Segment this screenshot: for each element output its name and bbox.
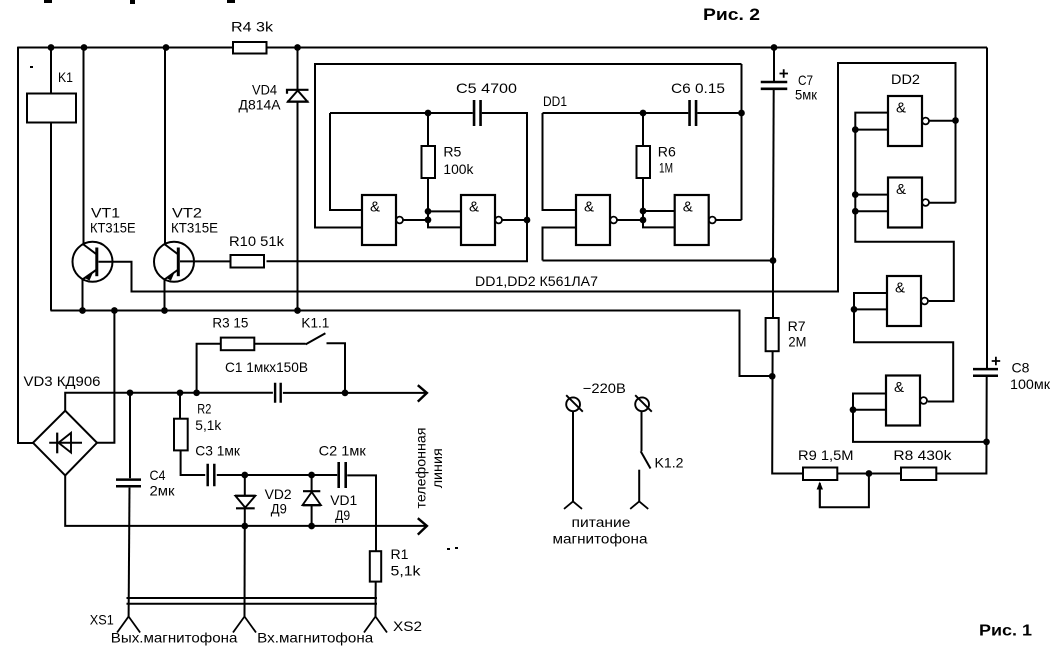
wire DD1.1 upper input loop bbox=[330, 113, 362, 210]
node minus line/VD2 bbox=[241, 523, 248, 530]
NAND gate DD2.2 bbox=[888, 178, 922, 228]
wire osc2 bottom rail to R7 node bbox=[543, 260, 774, 262]
node lower bus/VD4 bbox=[294, 307, 301, 314]
connector fork XS1 bbox=[117, 617, 140, 633]
svg-text:R3 15: R3 15 bbox=[212, 315, 248, 331]
svg-text:2M: 2M bbox=[788, 334, 806, 350]
wire R5 bottom to node bbox=[427, 178, 429, 220]
wire shielded pair line 2 bbox=[127, 603, 378, 605]
wire VD2 top bbox=[244, 475, 246, 496]
node lower bus/bridge bbox=[111, 307, 118, 314]
wire VT2 collector bbox=[164, 48, 166, 245]
svg-text:R6: R6 bbox=[658, 144, 676, 160]
zener diode VD4 Д814А bbox=[287, 90, 309, 94]
polar capacitor C7 bbox=[761, 82, 788, 89]
wire osc1 output down to R10 line bbox=[267, 220, 528, 261]
wire DD1.3 upper input loop bbox=[543, 113, 577, 210]
resistor R6 bbox=[637, 146, 651, 178]
svg-text:Д814А: Д814А bbox=[239, 97, 282, 113]
capacitor C5 bbox=[474, 100, 481, 126]
wire DD2.2 lower input bbox=[855, 210, 888, 212]
node bus/VT2 collector bbox=[163, 44, 170, 51]
svg-text:5мк: 5мк bbox=[795, 87, 818, 103]
wire DD1 osc2 top line right of C6 bbox=[697, 112, 741, 114]
connector fork Вх bbox=[233, 617, 256, 633]
wire R9 wiper loop bbox=[820, 476, 869, 507]
wire R6 top bbox=[642, 113, 644, 146]
svg-text:R4 3k: R4 3k bbox=[231, 19, 274, 35]
svg-text:R10 51k: R10 51k bbox=[229, 233, 285, 249]
diode VD1 Д9 (pointing up) bbox=[303, 490, 320, 492]
node bus/K1 bbox=[48, 44, 55, 51]
node R6/DD1.4 input bbox=[640, 208, 647, 215]
svg-text:−220В: −220В bbox=[583, 380, 626, 396]
wire DD2.4 lower input bbox=[853, 409, 886, 411]
svg-text:КТ315Е: КТ315Е bbox=[171, 220, 218, 236]
NAND gate DD1.2 bbox=[461, 195, 495, 245]
svg-text:&: & bbox=[370, 199, 380, 216]
svg-text:C3 1мк: C3 1мк bbox=[195, 443, 240, 459]
wire VT1 collector bbox=[83, 48, 85, 245]
mains plug terminal 2 bbox=[635, 397, 649, 411]
svg-text:Рис. 2: Рис. 2 bbox=[703, 5, 760, 24]
NAND gate DD2.4 bbox=[886, 376, 920, 426]
wire C1 right to upper arrow bbox=[283, 392, 426, 394]
wire VT1 base to DD2 outputs (long net) bbox=[99, 63, 956, 292]
svg-text:R9 1,5M: R9 1,5M bbox=[798, 447, 854, 463]
resistor R4 bbox=[233, 42, 267, 54]
node DD2.1 inputs bbox=[852, 126, 859, 133]
diode VD2 Д9 (pointing down) bbox=[235, 495, 256, 497]
wire DD2.2 upper input bbox=[855, 194, 888, 196]
svg-text:XS2: XS2 bbox=[393, 618, 422, 634]
NAND gate DD2.3 bbox=[887, 276, 921, 326]
svg-text:линия: линия bbox=[429, 448, 445, 488]
svg-text:телефонная: телефонная bbox=[413, 428, 429, 509]
node C2/VD1 bbox=[308, 472, 315, 479]
wire K1.1 fixed contact to C1 node bbox=[327, 343, 346, 393]
node plus line/K1.1 bbox=[342, 390, 349, 397]
wire osc2 right vertical (C6/DD1.4 output) bbox=[741, 64, 743, 220]
wire K1 coil bottom to lower bus bbox=[50, 123, 52, 311]
wire R3 right to K1.1 contact bbox=[254, 343, 305, 345]
svg-text:магнитофона: магнитофона bbox=[553, 530, 648, 546]
node DD2.2 upper input bbox=[852, 191, 859, 198]
wire R10 left to VT2 base bbox=[180, 260, 231, 262]
wire R9 to R8 link bbox=[837, 473, 901, 475]
svg-text:2мк: 2мк bbox=[150, 482, 176, 498]
svg-text:&: & bbox=[584, 199, 594, 216]
svg-text:&: & bbox=[896, 181, 906, 198]
wire K1.1/R3 loop left bbox=[197, 344, 221, 393]
svg-text:C1 1мкх150В: C1 1мкх150В bbox=[225, 359, 308, 375]
node bus/C7 bbox=[771, 44, 778, 51]
wire lower 0V bus with corner to R7 node bbox=[51, 311, 774, 377]
node rail/C7/R7 bbox=[770, 257, 777, 264]
wire DD2.3 input to DD2.4 output link bbox=[854, 309, 953, 401]
svg-text:C5 4700: C5 4700 bbox=[456, 80, 517, 96]
wire right edge vertical bus to C8 bbox=[986, 48, 988, 369]
wire DD2 input chain to DD2.3 output bbox=[855, 113, 954, 301]
wire R7 top bbox=[772, 261, 774, 319]
capacitor C2 bbox=[339, 462, 346, 488]
connector fork mains 2 bbox=[630, 501, 648, 509]
wire K1.2 fixed contact lead bbox=[638, 470, 640, 502]
wire K1.2 blade bbox=[641, 451, 651, 468]
node minus line/VD1 bbox=[308, 523, 315, 530]
wire DD1 osc2 top line left of C6 bbox=[543, 112, 689, 114]
svg-text:5,1k: 5,1k bbox=[391, 562, 422, 578]
svg-text:1M: 1M bbox=[659, 160, 673, 176]
svg-text:VD1: VD1 bbox=[330, 492, 357, 508]
NAND gate DD1.1 bbox=[362, 195, 396, 245]
lower arrow to telephone line bbox=[418, 518, 427, 534]
wire R1 bottom to XS2 bbox=[375, 582, 377, 617]
svg-text:&: & bbox=[469, 199, 479, 216]
wire DD2.2 output join bbox=[930, 202, 956, 204]
node lower bus/VT2 emitter bbox=[161, 307, 168, 314]
wire DD2.1 output bbox=[930, 120, 956, 122]
NAND gate DD1.3 bbox=[576, 195, 610, 245]
NAND gate DD2.1 bbox=[888, 96, 922, 146]
wire left edge vertical to bridge left corner bbox=[18, 47, 33, 443]
resistor R1 bbox=[370, 551, 381, 581]
wire C7 top to bus bbox=[773, 48, 775, 83]
wire R5 top bbox=[427, 113, 429, 146]
svg-text:VD3 КД906: VD3 КД906 bbox=[24, 373, 101, 389]
relay K1 coil bbox=[27, 94, 76, 123]
wire R2 bottom to C3 bbox=[181, 450, 206, 475]
svg-text:Д9: Д9 bbox=[271, 501, 287, 517]
wire DD1.3 output bbox=[617, 219, 643, 221]
wire DD2.1 lower input bbox=[855, 129, 888, 131]
svg-text:100мк: 100мк bbox=[1010, 376, 1051, 392]
svg-text:R2: R2 bbox=[197, 401, 211, 417]
node bus/VT1 collector bbox=[81, 44, 88, 51]
svg-text:K1: K1 bbox=[58, 69, 73, 85]
node plus line/R2 bbox=[177, 389, 184, 396]
wire R6 bottom to node bbox=[642, 178, 644, 220]
resistor R7 bbox=[766, 318, 779, 351]
svg-text:&: & bbox=[894, 379, 904, 396]
svg-text:R1: R1 bbox=[391, 546, 409, 562]
svg-text:R5: R5 bbox=[443, 144, 461, 160]
wire bridge plus output line (to C1, upper arrow) bbox=[65, 393, 273, 411]
svg-text:&: & bbox=[896, 100, 906, 117]
node osc1 top/R5 bbox=[425, 110, 432, 117]
node plus line/R3 loop bbox=[193, 389, 200, 396]
node DD2.4 inputs bbox=[850, 406, 857, 413]
resistor R10 bbox=[231, 255, 265, 268]
svg-text:VD4: VD4 bbox=[252, 82, 277, 98]
wire DD2.3 upper input loop bbox=[854, 293, 887, 309]
connector fork XS2 bbox=[364, 617, 387, 633]
node C8/DD2.4 input bbox=[983, 439, 990, 446]
svg-text:Рис. 1: Рис. 1 bbox=[979, 623, 1032, 640]
wire DD1.4 lower input hook bbox=[643, 220, 675, 227]
wire DD1.2 lower input hook bbox=[428, 220, 461, 227]
wire C4 top branch bbox=[129, 393, 131, 478]
wire VD1 bottom bbox=[311, 506, 313, 527]
capacitor C6 bbox=[690, 100, 697, 126]
node DD1.3 output bbox=[640, 217, 647, 224]
mains plug terminal 1 bbox=[566, 397, 580, 411]
svg-text:C6 0.15: C6 0.15 bbox=[671, 80, 725, 96]
wire DD2.3 lower input bbox=[854, 308, 887, 310]
svg-text:КТ315Е: КТ315Е bbox=[90, 220, 136, 236]
svg-text:XS1: XS1 bbox=[90, 612, 114, 628]
wire DD1 osc1 top line left of C5 bbox=[330, 112, 473, 114]
wire R2 top branch bbox=[179, 393, 181, 419]
wire shielded pair line 1 bbox=[127, 597, 378, 599]
wire DD1.2 output to node bbox=[502, 219, 528, 221]
NAND gate DD1.4 bbox=[675, 195, 709, 245]
wire VD4 anode to lower bus bbox=[297, 102, 299, 311]
svg-text:VT2: VT2 bbox=[172, 205, 202, 221]
svg-text:DD1: DD1 bbox=[543, 93, 567, 109]
upper arrow to telephone line bbox=[418, 385, 427, 401]
wire DD2.4 upper input loop bbox=[853, 394, 886, 410]
svg-text:VT1: VT1 bbox=[91, 205, 120, 221]
wire VD1 top bbox=[311, 475, 313, 491]
wire DD2.4 input to C8 node bbox=[853, 410, 987, 442]
node R9/R8/wiper bbox=[866, 470, 873, 477]
node R5/DD1.2 input bbox=[425, 208, 432, 215]
node C3/VD2 bbox=[241, 472, 248, 479]
wire C7 bottom vertical to node bbox=[772, 89, 775, 261]
resistor R3 bbox=[221, 338, 255, 351]
node lower bus/VT1 emitter bbox=[79, 307, 86, 314]
wire VT2 emitter bbox=[164, 280, 166, 311]
node osc2 top/output bbox=[738, 110, 745, 117]
transistor VT1 КТ315Е bbox=[73, 242, 113, 282]
svg-text:R8 430k: R8 430k bbox=[893, 447, 952, 463]
wire DD1.4 upper input bbox=[643, 210, 675, 212]
capacitor C3 bbox=[208, 464, 215, 487]
wire C2 right down to R1 bbox=[347, 475, 376, 551]
svg-text:Вх.магнитофона: Вх.магнитофона bbox=[257, 630, 373, 646]
wire top supply bus right segment bbox=[267, 47, 988, 49]
wire bridge right corner up to lower bus bbox=[97, 311, 114, 443]
connector fork mains 1 bbox=[564, 501, 582, 509]
svg-text:K1.2: K1.2 bbox=[655, 454, 684, 470]
wire VD4 cathode to bus bbox=[297, 48, 299, 90]
wire mains plug 1 down lead bbox=[572, 411, 574, 501]
polar capacitor C8 bbox=[973, 369, 998, 376]
node DD2.2 lower input bbox=[852, 208, 859, 215]
resistor R5 bbox=[422, 146, 436, 178]
wire K1.1 blade bbox=[306, 333, 326, 344]
diode bridge VD3 КД906 bbox=[33, 411, 97, 476]
resistor R8 bbox=[901, 468, 936, 481]
wire top supply bus left segment bbox=[18, 47, 233, 49]
svg-text:&: & bbox=[683, 199, 693, 216]
capacitor C1 bbox=[275, 383, 281, 403]
svg-text:R7: R7 bbox=[788, 318, 806, 334]
node plus line/C4 bbox=[127, 389, 134, 396]
wire K1 coil top bbox=[50, 48, 52, 94]
svg-text:C4: C4 bbox=[150, 467, 166, 483]
node DD2.1 output/right rail bbox=[952, 117, 959, 124]
capacitor C4 bbox=[116, 480, 141, 487]
svg-text:C2 1мк: C2 1мк bbox=[319, 443, 367, 459]
svg-text:&: & bbox=[895, 280, 905, 297]
wire DD1.4 output bbox=[716, 219, 742, 221]
svg-text:K1.1: K1.1 bbox=[301, 315, 329, 331]
node DD1.2 output bbox=[524, 217, 531, 224]
node DD2.3 inputs bbox=[851, 306, 858, 313]
junction dots group bbox=[48, 44, 990, 529]
node R7/lower bus bbox=[769, 373, 776, 380]
svg-text:100k: 100k bbox=[443, 161, 474, 177]
transistor VT2 КТ315Е bbox=[154, 242, 194, 282]
wire C3 right to C2 left (VD2/VD1 taps) bbox=[217, 474, 337, 476]
resistor R2 bbox=[174, 419, 188, 451]
svg-text:DD2: DD2 bbox=[891, 71, 920, 87]
svg-text:VD2: VD2 bbox=[265, 486, 292, 502]
node DD1.1 output bbox=[425, 217, 432, 224]
wire VD2 bottom to XS connector line bbox=[244, 508, 246, 616]
svg-text:5,1k: 5,1k bbox=[195, 417, 222, 433]
svg-text:DD1,DD2 К561ЛА7: DD1,DD2 К561ЛА7 bbox=[475, 273, 598, 289]
wire bridge minus line (lower arrow) bbox=[65, 476, 426, 526]
wire feedback loop DD1.1 input (left/top of DD1 block) bbox=[315, 64, 742, 228]
potentiometer R9 1.5M bbox=[803, 468, 837, 481]
node osc2 top/R6 bbox=[640, 110, 647, 117]
svg-text:питание: питание bbox=[572, 514, 631, 530]
svg-text:C8: C8 bbox=[1012, 359, 1030, 375]
wire DD1.1 output bbox=[404, 219, 429, 221]
wire DD1.3 lower input drop bbox=[543, 228, 577, 261]
svg-text:Д9: Д9 bbox=[335, 507, 350, 523]
wire VT1 emitter bbox=[82, 280, 84, 311]
svg-text:Вых.магнитофона: Вых.магнитофона bbox=[111, 630, 238, 646]
node bus/VD4 bbox=[294, 44, 301, 51]
wire DD1.2 upper input bbox=[428, 210, 461, 212]
wire C8 bottom to R8 corner bbox=[936, 377, 986, 474]
wire mains plug 2 lead to K1.2 bbox=[641, 411, 643, 451]
wire DD1 osc1 top line right of C5 down to output node bbox=[482, 113, 527, 220]
wire C4 bottom to XS1 bbox=[128, 488, 131, 617]
wire R7 bottom to R9 rail bbox=[772, 351, 803, 473]
